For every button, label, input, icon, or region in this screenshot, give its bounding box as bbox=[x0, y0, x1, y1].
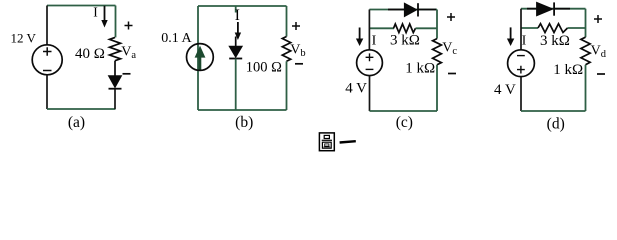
svg-text:0.1 A: 0.1 A bbox=[161, 31, 192, 46]
diode D2 (down) bbox=[229, 46, 242, 57]
svg-text:(b): (b) bbox=[235, 114, 253, 131]
wire: (c) right branch upper bbox=[436, 10, 438, 39]
wire: (d) bottom bbox=[521, 110, 586, 112]
minus sign Vc bbox=[448, 73, 456, 75]
wire: (d) left branch upper bbox=[520, 9, 522, 50]
svg-text:Va: Va bbox=[121, 45, 136, 62]
svg-text:100 Ω: 100 Ω bbox=[246, 60, 282, 76]
current arrow (b) bbox=[237, 22, 239, 33]
wire: (c) second branch left part bbox=[369, 27, 394, 29]
svg-text:Vd: Vd bbox=[591, 44, 607, 61]
wire: (d) left branch lower bbox=[520, 77, 522, 111]
current arrow (a) bbox=[104, 6, 106, 21]
wire: (d) top diode branch bbox=[521, 8, 586, 10]
svg-text:4 V: 4 V bbox=[494, 82, 516, 98]
svg-text:1 kΩ: 1 kΩ bbox=[405, 61, 435, 77]
svg-text:I: I bbox=[235, 7, 240, 24]
plus sign Vc bbox=[447, 13, 455, 21]
wire: (c) bottom bbox=[370, 110, 438, 112]
wire: (b) middle branch upper bbox=[235, 6, 237, 13]
current source I1 0.1A bbox=[187, 44, 214, 71]
diode D1 (down) bbox=[109, 76, 122, 88]
wire: (c) left branch upper bbox=[368, 10, 370, 51]
wire: (a) resistor to diode bbox=[114, 61, 116, 76]
resistor R 100ohm zigzag bbox=[282, 37, 290, 62]
wire: (d) right branch lower bbox=[585, 65, 587, 111]
diode D3 (right) bbox=[388, 9, 404, 11]
svg-text:I: I bbox=[372, 34, 377, 49]
plus sign Va bbox=[125, 22, 133, 30]
wire: (a) right branch upper bbox=[115, 6, 117, 38]
wire: (a) bottom bbox=[47, 108, 116, 110]
wire: (d) second branch right part bbox=[568, 27, 586, 29]
caption glyph 圖 (drawn) bbox=[319, 133, 334, 151]
wire: (d) right branch upper bbox=[585, 9, 587, 38]
wire: (b) bottom bbox=[198, 109, 287, 111]
current arrow (d) bbox=[510, 27, 512, 39]
wire: (b) middle branch lower bbox=[235, 59, 237, 111]
wire: (b) left branch bbox=[197, 6, 199, 110]
minus sign Vb bbox=[295, 63, 303, 65]
minus sign Vd bbox=[597, 73, 605, 75]
svg-text:(d): (d) bbox=[547, 115, 565, 132]
minus sign Va bbox=[123, 73, 131, 75]
svg-text:I: I bbox=[522, 33, 527, 48]
svg-text:Vc: Vc bbox=[442, 40, 457, 57]
plus sign Vd bbox=[594, 15, 602, 23]
plus sign Vb bbox=[292, 22, 300, 30]
svg-text:(c): (c) bbox=[396, 114, 413, 131]
wire: (a) diode to bottom bbox=[114, 89, 116, 109]
svg-text:3 kΩ: 3 kΩ bbox=[390, 33, 420, 49]
wire: (b) right branch upper bbox=[286, 6, 288, 37]
wire: (a) left branch lower bbox=[46, 75, 48, 109]
resistor R 1k zigzag (d) bbox=[581, 37, 590, 65]
wire: (c) top diode branch bbox=[369, 9, 437, 11]
voltage source V1 12V bbox=[32, 45, 62, 75]
svg-text:4 V: 4 V bbox=[345, 80, 367, 96]
wire: (c) right branch lower bbox=[436, 65, 438, 111]
svg-text:40 Ω: 40 Ω bbox=[75, 46, 105, 62]
diode D4 (right) bbox=[527, 8, 536, 10]
svg-text:I: I bbox=[93, 5, 98, 20]
svg-text:Vb: Vb bbox=[290, 43, 305, 60]
wire: (a) top bbox=[47, 5, 116, 7]
svg-text:3 kΩ: 3 kΩ bbox=[540, 33, 570, 49]
wire: (c) left branch lower bbox=[369, 76, 371, 111]
wire: (b) top bbox=[198, 5, 287, 7]
resistor R 40ohm zigzag bbox=[110, 37, 121, 60]
resistor R 1k zigzag (c) bbox=[433, 39, 442, 65]
voltage source V3 4V (d, reversed) bbox=[508, 50, 535, 77]
svg-text:1 kΩ: 1 kΩ bbox=[553, 62, 583, 78]
wire: (d) second branch left part bbox=[521, 27, 538, 29]
resistor R 3k zigzag (horizontal) bbox=[394, 24, 416, 33]
current arrow (c) bbox=[359, 28, 361, 40]
wire: (c) second branch right part bbox=[416, 27, 438, 29]
wire: (a) left branch upper bbox=[46, 6, 48, 45]
caption glyph 一 (drawn) bbox=[340, 141, 356, 142]
wire: (b) right branch lower bbox=[286, 61, 288, 110]
svg-text:12 V: 12 V bbox=[11, 31, 37, 46]
resistor R 3k zigzag (d) bbox=[538, 24, 568, 33]
voltage source V2 4V (c) bbox=[357, 50, 383, 76]
svg-text:(a): (a) bbox=[68, 114, 85, 131]
